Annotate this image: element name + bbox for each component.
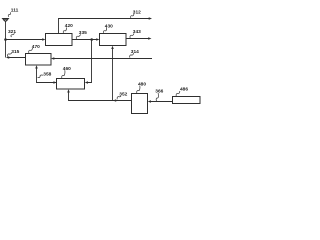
svg-text:335: 335 [79, 30, 87, 36]
svg-text:315: 315 [11, 49, 19, 55]
svg-text:321: 321 [8, 29, 16, 35]
svg-text:111: 111 [11, 8, 19, 14]
svg-text:460: 460 [63, 66, 71, 72]
svg-text:470: 470 [32, 44, 40, 50]
svg-text:314: 314 [131, 49, 139, 55]
svg-text:486: 486 [180, 87, 188, 93]
svg-text:343: 343 [133, 29, 141, 35]
svg-text:358: 358 [43, 71, 51, 77]
svg-text:420: 420 [65, 23, 73, 29]
svg-text:480: 480 [138, 82, 146, 88]
svg-text:312: 312 [133, 9, 141, 15]
svg-text:352: 352 [119, 92, 127, 98]
svg-text:430: 430 [105, 23, 113, 29]
svg-text:366: 366 [155, 89, 163, 95]
